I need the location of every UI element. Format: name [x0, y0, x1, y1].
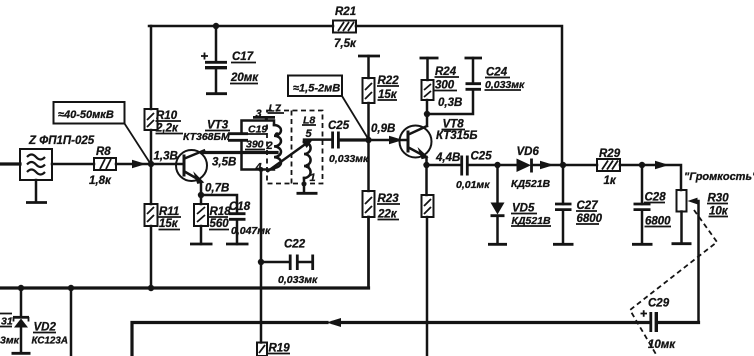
svg-text:4: 4: [255, 162, 262, 174]
svg-text:≈40-50мкВ: ≈40-50мкВ: [58, 109, 114, 121]
svg-text:0,033мк: 0,033мк: [329, 153, 369, 165]
svg-text:1,8к: 1,8к: [89, 175, 112, 187]
svg-text:C18: C18: [229, 201, 251, 213]
svg-text:0,01мк: 0,01мк: [456, 179, 490, 191]
svg-text:3: 3: [256, 108, 262, 120]
svg-text:7,5к: 7,5к: [334, 38, 357, 50]
svg-text:Z ФП1П-025: Z ФП1П-025: [28, 135, 95, 147]
svg-text:1к: 1к: [604, 175, 617, 187]
svg-text:560: 560: [210, 218, 230, 230]
svg-text:2: 2: [266, 140, 273, 152]
svg-text:C17: C17: [232, 51, 254, 63]
svg-text:0,3В: 0,3В: [438, 97, 462, 109]
svg-text:C22: C22: [284, 239, 306, 251]
svg-text:0,047мк: 0,047мк: [231, 225, 271, 237]
svg-text:≈1,5-2мВ: ≈1,5-2мВ: [293, 83, 340, 95]
svg-text:0,9В: 0,9В: [371, 123, 395, 135]
svg-text:КТ368БМ: КТ368БМ: [183, 131, 230, 143]
svg-text:R8: R8: [96, 146, 111, 158]
svg-text:КД521В: КД521В: [511, 178, 551, 190]
svg-text:4,4В: 4,4В: [435, 152, 460, 164]
svg-text:C25: C25: [328, 120, 350, 132]
svg-text:КС123А: КС123А: [32, 336, 68, 347]
svg-text:5: 5: [306, 128, 313, 140]
svg-text:15к: 15к: [159, 218, 179, 230]
svg-text:R29: R29: [599, 148, 621, 160]
svg-text:КТ315Б: КТ315Б: [436, 130, 478, 142]
svg-text:C25: C25: [471, 151, 493, 163]
svg-text:C29: C29: [648, 298, 670, 310]
svg-text:0,7В: 0,7В: [205, 183, 229, 195]
svg-text:VD6: VD6: [517, 146, 540, 158]
svg-text:3,5В: 3,5В: [212, 157, 236, 169]
svg-text:3мк: 3мк: [0, 335, 20, 347]
svg-text:20мк: 20мк: [230, 72, 259, 84]
svg-text:"Громкость": "Громкость": [684, 171, 754, 183]
svg-text:0,033мк: 0,033мк: [278, 274, 318, 286]
svg-text:10мк: 10мк: [648, 339, 676, 351]
svg-text:1,3В: 1,3В: [154, 151, 178, 163]
svg-text:R21: R21: [335, 6, 356, 18]
svg-text:1: 1: [310, 172, 316, 184]
